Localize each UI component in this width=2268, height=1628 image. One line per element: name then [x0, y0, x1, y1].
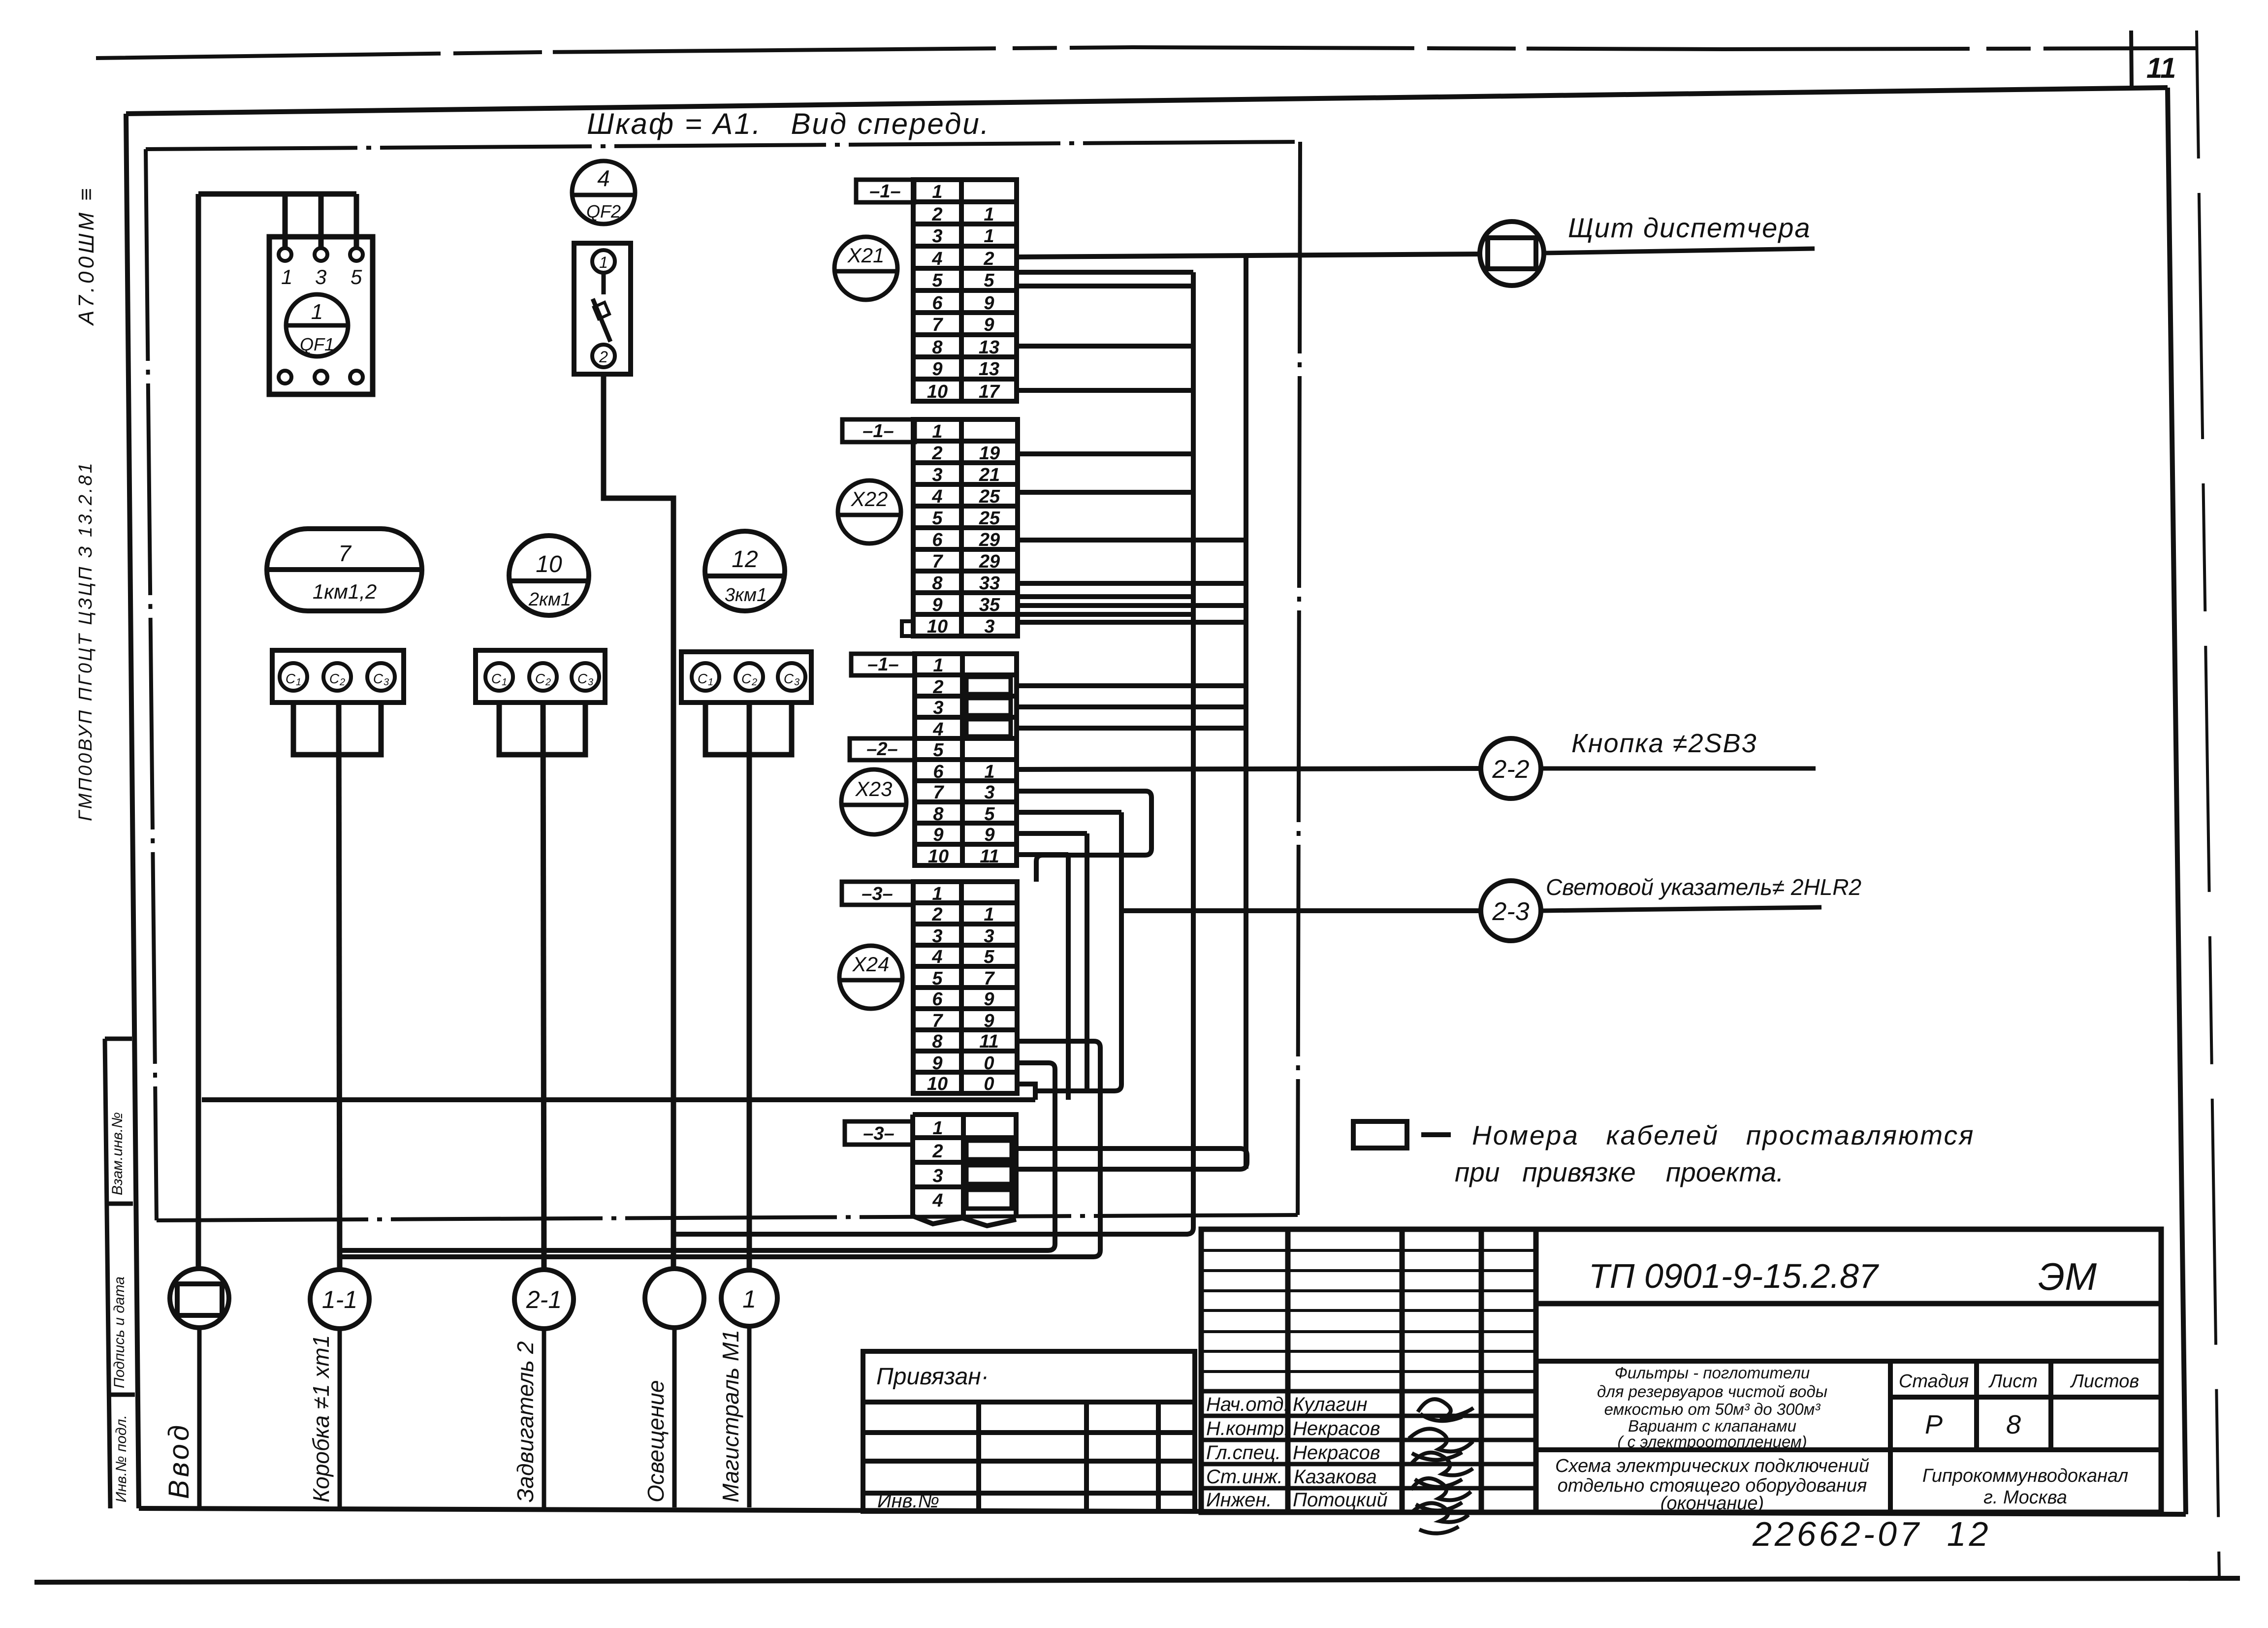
svg-text:емкостью от 50м³ до 300м³: емкостью от 50м³ до 300м³ — [1604, 1400, 1821, 1418]
wire: QF1 terminal drop 5 — [354, 194, 359, 248]
svg-text:17: 17 — [979, 382, 1000, 402]
QF2 switch blade — [593, 273, 610, 342]
svg-text:4: 4 — [932, 719, 943, 740]
svg-text:(окончание): (окончание) — [1661, 1493, 1764, 1514]
wire: X22.10 — [1018, 612, 1193, 617]
cable tab —3— of X24 — [842, 882, 913, 905]
svg-text:4: 4 — [932, 1190, 943, 1211]
svg-text:3: 3 — [315, 265, 326, 288]
svg-text:QF2: QF2 — [586, 201, 621, 222]
svg-text:Р: Р — [1925, 1410, 1943, 1439]
terminal C2 — [529, 663, 557, 691]
bottom strip cable number placeholder — [966, 1165, 1012, 1184]
svg-text:1: 1 — [932, 182, 942, 202]
svg-text:7: 7 — [984, 968, 995, 989]
terminal C2 — [323, 663, 351, 691]
svg-text:Освещение: Освещение — [643, 1380, 669, 1502]
svg-text:3: 3 — [932, 465, 942, 485]
button node 2-2 — [1481, 738, 1541, 798]
wire: X22.6 — [1018, 538, 1246, 543]
svg-text:4: 4 — [931, 947, 942, 967]
QF1 top terminal 1 — [279, 248, 291, 261]
X23 row 4 cable number placeholder — [966, 719, 1011, 736]
terminal box of contactor 1 — [272, 650, 404, 702]
frame bottom line — [139, 1508, 2186, 1514]
wire: lighting circuit from QF2 down — [604, 374, 673, 1269]
svg-text:Листов: Листов — [2070, 1371, 2139, 1392]
svg-text:4: 4 — [597, 165, 610, 191]
svg-text:Некрасов: Некрасов — [1293, 1442, 1380, 1464]
svg-text:5: 5 — [984, 804, 995, 825]
svg-text:12: 12 — [732, 546, 758, 573]
svg-text:Привязан·: Привязан· — [876, 1364, 989, 1390]
wire: X22.9 — [1018, 594, 1193, 599]
wire: X23.6 to button 2-2 — [1017, 768, 1481, 769]
svg-text:для резервуаров чистой воды: для резервуаров чистой воды — [1597, 1382, 1827, 1401]
QF1 top terminal 5 — [350, 248, 363, 261]
svg-text:4: 4 — [931, 486, 942, 507]
breaker QF1 body — [269, 237, 373, 394]
wire: X22.10b — [1018, 620, 1246, 625]
svg-text:8: 8 — [2006, 1410, 2021, 1439]
svg-text:33: 33 — [979, 573, 1000, 594]
jumper C1-C3 contactor 1 — [293, 702, 381, 755]
svg-text:9: 9 — [932, 359, 942, 380]
svg-text:7: 7 — [338, 541, 351, 566]
node 2-1 valve circle — [514, 1270, 574, 1329]
svg-text:при привязке проекта.: при привязке проекта. — [1455, 1157, 1784, 1187]
wire: X22.4 — [1018, 490, 1193, 495]
svg-text:X22: X22 — [851, 487, 888, 511]
svg-text:22662-07 12: 22662-07 12 — [1752, 1515, 1991, 1553]
wire: X21.4 to dispatcher panel — [1017, 254, 1480, 257]
sheet bottom edge — [34, 1578, 2240, 1582]
svg-text:2: 2 — [932, 1141, 943, 1162]
QF2 terminal 1 — [592, 250, 615, 273]
svg-text:29: 29 — [979, 530, 1000, 550]
svg-text:С: С — [535, 671, 545, 686]
lighting label underline — [672, 1328, 677, 1507]
svg-text:С: С — [329, 671, 340, 686]
bottom strip cable number placeholder — [966, 1141, 1012, 1159]
terminal strip X22 — [913, 419, 1018, 636]
M1 label underline — [747, 1326, 752, 1507]
svg-text:С: С — [741, 671, 752, 686]
svg-text:5: 5 — [351, 265, 362, 288]
1-1 label underline — [338, 1329, 342, 1507]
wire: loose strip row2 u-loop — [1017, 1149, 1247, 1169]
wire: X23.7 staircase — [1017, 791, 1151, 882]
svg-text:–3–: –3– — [863, 1123, 894, 1144]
loose terminal strip -3- (bottom) — [913, 1115, 1016, 1226]
svg-text:–1–: –1– — [862, 421, 894, 442]
svg-text:9: 9 — [932, 1053, 942, 1074]
svg-text:11: 11 — [2146, 52, 2176, 84]
svg-text:ГМП00ВУП ПГ0ЦТ ЦЗЦП З 13.2.81: ГМП00ВУП ПГ0ЦТ ЦЗЦП З 13.2.81 — [75, 461, 96, 821]
terminal C1 — [280, 663, 307, 691]
svg-text:5: 5 — [932, 508, 943, 529]
wire: QF1 terminal drop 3 — [319, 194, 324, 248]
svg-text:Световой указатель≠ 2HLR2: Световой указатель≠ 2HLR2 — [1546, 874, 1861, 900]
frame top line — [126, 88, 2168, 114]
svg-text:Нач.отд.: Нач.отд. — [1206, 1394, 1289, 1415]
X23 row 3 cable number placeholder — [966, 698, 1011, 715]
svg-text:ЭМ: ЭМ — [2038, 1255, 2097, 1298]
terminal C3 — [778, 663, 805, 691]
svg-text:Кнопка ≠2SB3: Кнопка ≠2SB3 — [1571, 729, 1757, 758]
connector balloon X21 — [834, 237, 897, 300]
wire: X21.6 — [1017, 284, 1193, 288]
svg-text:35: 35 — [979, 595, 1000, 615]
svg-text:Схема электрических подключени: Схема электрических подключений — [1555, 1456, 1869, 1476]
svg-text:10: 10 — [927, 616, 948, 637]
contactor balloon 10/2км1 — [509, 536, 589, 615]
svg-text:8: 8 — [932, 1031, 943, 1052]
svg-text:5: 5 — [984, 947, 994, 967]
wire: loose strip row3 — [1016, 1167, 1240, 1172]
svg-text:10: 10 — [928, 846, 949, 867]
svg-text:2: 2 — [931, 904, 942, 925]
wire: X24.10 hook — [1017, 1084, 1035, 1100]
svg-text:6: 6 — [933, 762, 944, 782]
contactor balloon 7/1км1,2 — [267, 529, 422, 611]
svg-text:Гл.спец.: Гл.спец. — [1206, 1442, 1281, 1464]
svg-text:С: С — [698, 671, 708, 686]
svg-text:2: 2 — [545, 677, 551, 688]
svg-text:9: 9 — [984, 315, 994, 335]
svg-text:Кулагин: Кулагин — [1293, 1394, 1367, 1415]
svg-text:1: 1 — [932, 1118, 943, 1139]
svg-text:0: 0 — [984, 1074, 994, 1094]
svg-text:Взам.инв.№: Взам.инв.№ — [109, 1112, 126, 1195]
wire: contactor1 C2 down to box 1-1 — [339, 702, 340, 1270]
svg-text:1км1,2: 1км1,2 — [313, 580, 377, 603]
svg-text:3: 3 — [932, 226, 942, 247]
terminal C2 — [735, 663, 763, 691]
svg-text:7: 7 — [932, 315, 943, 335]
svg-text:9: 9 — [984, 989, 994, 1010]
svg-text:1: 1 — [708, 677, 713, 688]
svg-text:3: 3 — [984, 782, 994, 803]
svg-text:Н.контр.: Н.контр. — [1206, 1418, 1289, 1439]
svg-text:0: 0 — [984, 1053, 994, 1074]
svg-text:Некрасов: Некрасов — [1293, 1418, 1380, 1439]
svg-text:2: 2 — [931, 443, 942, 464]
svg-text:Шкаф = А1. Вид спереди.: Шкаф = А1. Вид спереди. — [587, 107, 990, 140]
svg-text:Коробка ≠1 хт1: Коробка ≠1 хт1 — [308, 1335, 334, 1502]
svg-text:3: 3 — [794, 677, 799, 688]
wire: X23.9 — [1017, 831, 1087, 836]
left margin stamp column — [105, 1039, 135, 1508]
wire: contactor2 C2 down to valve 2-1 — [543, 702, 544, 1270]
2-2 label underline — [1541, 766, 1816, 771]
X23 row 2 cable number placeholder — [966, 677, 1011, 694]
svg-text:Подпись и дата: Подпись и дата — [111, 1277, 128, 1388]
svg-text:С: С — [784, 671, 794, 686]
svg-text:С: С — [577, 671, 588, 686]
svg-text:Щит диспетчера: Щит диспетчера — [1568, 212, 1811, 243]
cabinet boundary =A1 dash-dot rectangle — [146, 142, 1300, 1220]
svg-text:Потоцкий: Потоцкий — [1293, 1489, 1388, 1511]
svg-text:3: 3 — [984, 616, 994, 637]
frame right line — [2168, 88, 2186, 1514]
bus V1 down from X21.5 — [673, 272, 1193, 1234]
wire: X23.4 — [1017, 726, 1246, 731]
svg-text:8: 8 — [932, 573, 943, 594]
terminal C3 — [572, 663, 599, 691]
svg-text:С: С — [286, 671, 296, 686]
wire: X23.2 — [1017, 683, 1246, 688]
sheet right torn edge — [2197, 31, 2219, 1579]
sheet top torn edge — [96, 47, 2196, 58]
svg-text:–2–: –2– — [866, 739, 897, 760]
cable tab —1— of X22 — [842, 419, 915, 442]
svg-text:3: 3 — [984, 926, 994, 947]
signatures squiggles — [1409, 1399, 1473, 1533]
svg-text:3км1: 3км1 — [725, 585, 767, 606]
svg-text:7: 7 — [933, 782, 944, 803]
legend dash — [1421, 1132, 1451, 1137]
jumper C1-C3 contactor 2 — [499, 702, 585, 755]
QF1 bottom terminal — [315, 371, 327, 383]
2-1 label underline — [542, 1329, 546, 1507]
terminal strip X21 — [913, 180, 1017, 401]
svg-text:1: 1 — [933, 655, 943, 676]
page number divider tick — [2131, 31, 2132, 89]
svg-text:Инжен.: Инжен. — [1206, 1489, 1272, 1511]
svg-text:1: 1 — [932, 421, 942, 442]
switch QF2 body — [574, 243, 631, 374]
cable tab —3— of bottom strip — [845, 1121, 913, 1145]
svg-text:1-1: 1-1 — [322, 1286, 357, 1313]
svg-text:10: 10 — [536, 551, 562, 577]
svg-text:Гипрокоммунводоканал: Гипрокоммунводоканал — [1922, 1466, 2128, 1486]
wire: neutral run to input riser — [202, 1097, 1035, 1102]
wire: V down from X23.9 — [1085, 833, 1089, 1091]
svg-text:Фильтры - поглотители: Фильтры - поглотители — [1615, 1364, 1810, 1382]
svg-text:( с электроотоплением): ( с электроотоплением) — [1617, 1433, 1807, 1451]
svg-text:1: 1 — [311, 300, 323, 324]
svg-text:Ввод: Ввод — [163, 1422, 195, 1499]
svg-text:10: 10 — [927, 382, 948, 402]
svg-text:2-2: 2-2 — [1492, 755, 1529, 784]
svg-text:13: 13 — [979, 337, 999, 358]
svg-text:2-3: 2-3 — [1492, 897, 1529, 926]
wire: QF1 supply top horizontal — [198, 192, 356, 197]
svg-text:3: 3 — [933, 698, 943, 718]
cable tab —2— of X23 — [850, 738, 915, 760]
svg-text:X21: X21 — [847, 244, 885, 267]
svg-text:19: 19 — [979, 443, 1000, 464]
node: Ввод (input) circle with cable mark — [170, 1269, 229, 1328]
wire: light 2-3 line — [1121, 908, 1481, 913]
svg-text:25: 25 — [979, 508, 1000, 529]
svg-text:9: 9 — [984, 825, 994, 845]
bus V4 to light 2-3 and X24 — [1035, 812, 1121, 1091]
wire: X21.8 — [1017, 344, 1193, 349]
QF1 bottom terminal — [279, 371, 291, 383]
terminal strip X24 — [913, 882, 1017, 1093]
wire: QF1 terminal drop 1 — [283, 194, 288, 248]
remote device: dispatcher panel symbol — [1480, 222, 1544, 286]
Привязан box — [863, 1351, 1195, 1511]
svg-text:2: 2 — [983, 249, 994, 269]
svg-text:Лист: Лист — [1988, 1371, 2038, 1392]
QF1 designator balloon 1/QF1 — [286, 294, 348, 356]
svg-text:9: 9 — [984, 293, 994, 314]
QF1 top terminal 3 — [315, 248, 327, 261]
QF1 bottom terminal — [350, 371, 363, 383]
svg-text:1: 1 — [296, 677, 301, 688]
wire: X24.8 route to junction box — [340, 1041, 1100, 1257]
cable tab —1— of X21 — [856, 180, 914, 202]
jumper C1-C3 contactor 3 — [705, 702, 792, 755]
svg-text:8: 8 — [932, 337, 943, 358]
svg-text:Стадия: Стадия — [1899, 1371, 1969, 1392]
wire: X23.3 — [1017, 704, 1246, 709]
svg-text:–1–: –1– — [867, 654, 898, 675]
svg-text:3: 3 — [588, 677, 593, 688]
node lighting circle — [645, 1269, 704, 1328]
svg-text:1: 1 — [281, 265, 292, 288]
svg-text:5: 5 — [933, 740, 944, 761]
svg-text:2: 2 — [932, 677, 943, 698]
QF2 terminal 2 — [592, 345, 615, 367]
bottom strip cable number placeholder — [966, 1190, 1012, 1209]
svg-text:–1–: –1– — [869, 181, 900, 202]
svg-text:4: 4 — [931, 249, 942, 269]
svg-text:29: 29 — [979, 551, 1000, 572]
svg-text:2: 2 — [339, 677, 345, 688]
node 1 main M1 circle — [721, 1270, 777, 1326]
wire: X24.9 route to junction box — [340, 1063, 1055, 1250]
X22 row10 left mark — [902, 621, 914, 636]
dispatcher label underline — [1544, 249, 1815, 253]
svg-text:1: 1 — [984, 904, 994, 925]
svg-text:25: 25 — [979, 486, 1000, 507]
svg-text:Инв.№ подл.: Инв.№ подл. — [113, 1415, 129, 1502]
frame left line — [126, 114, 139, 1508]
contactor balloon 12/3км1 — [705, 531, 785, 611]
wire: X22.9b — [1018, 603, 1246, 608]
connector balloon X22 — [838, 480, 901, 543]
terminal C1 — [485, 663, 513, 691]
svg-text:21: 21 — [979, 465, 1000, 485]
svg-text:С: С — [373, 671, 383, 686]
QF2 designator balloon 4/QF2 — [572, 161, 635, 224]
wire: X21.10 — [1017, 388, 1193, 393]
svg-text:Инв.№: Инв.№ — [877, 1490, 939, 1512]
svg-text:г. Москва: г. Москва — [1983, 1487, 2067, 1508]
terminal C1 — [692, 663, 719, 691]
svg-text:2-1: 2-1 — [526, 1286, 562, 1313]
svg-text:7: 7 — [932, 1011, 943, 1031]
svg-text:X24: X24 — [852, 953, 890, 976]
svg-text:7: 7 — [932, 551, 943, 572]
svg-text:6: 6 — [932, 293, 943, 314]
cable tab —1— of X23 — [851, 654, 915, 675]
wire: X21.5 — [1017, 270, 1193, 275]
svg-text:9: 9 — [932, 595, 942, 615]
svg-text:С: С — [491, 671, 502, 686]
svg-text:1: 1 — [984, 226, 994, 247]
connector balloon X23 — [841, 769, 906, 834]
svg-text:1: 1 — [502, 677, 507, 688]
svg-text:–3–: –3– — [862, 884, 893, 904]
svg-text:11: 11 — [980, 846, 999, 867]
title block revision rows — [1201, 1250, 1536, 1372]
svg-text:Задвигатель 2: Задвигатель 2 — [512, 1341, 538, 1502]
svg-text:Номера кабелей проставляют: Номера кабелей проставляются — [1472, 1120, 1975, 1150]
svg-text:5: 5 — [932, 968, 943, 989]
terminal box of contactor 2 — [476, 650, 605, 702]
svg-text:5: 5 — [932, 270, 943, 291]
title block signature row dividers — [1201, 1391, 1536, 1488]
svg-text:ТП 0901-9-15.2.87: ТП 0901-9-15.2.87 — [1589, 1257, 1880, 1295]
2-3 label underline — [1541, 907, 1821, 911]
svg-text:8: 8 — [933, 804, 944, 825]
svg-text:А7.00ШМ ≡: А7.00ШМ ≡ — [74, 185, 98, 326]
wire: X22.2 — [1018, 451, 1193, 456]
svg-text:1: 1 — [742, 1285, 756, 1313]
svg-text:2: 2 — [599, 348, 608, 366]
svg-text:Ст.инж.: Ст.инж. — [1206, 1466, 1283, 1488]
svg-text:10: 10 — [927, 1074, 948, 1094]
svg-text:2: 2 — [751, 677, 757, 688]
svg-text:6: 6 — [932, 530, 943, 550]
svg-text:QF1: QF1 — [300, 334, 334, 354]
svg-text:9: 9 — [984, 1011, 994, 1031]
svg-text:1: 1 — [984, 204, 994, 225]
svg-text:3: 3 — [932, 1166, 943, 1186]
svg-text:3: 3 — [383, 677, 389, 688]
svg-text:1: 1 — [932, 884, 942, 904]
svg-text:Магистраль М1: Магистраль М1 — [718, 1330, 743, 1502]
title block outer — [1201, 1229, 2161, 1512]
wire: X23.8 to bus V4 — [1017, 810, 1121, 815]
terminal C3 — [367, 663, 395, 691]
svg-text:2км1: 2км1 — [528, 589, 571, 610]
svg-text:11: 11 — [979, 1031, 998, 1052]
svg-text:2: 2 — [931, 204, 942, 225]
svg-text:Казакова: Казакова — [1294, 1466, 1377, 1488]
legend cable number box — [1353, 1121, 1407, 1148]
wire: input feeder vertical (Ввод riser) — [196, 194, 201, 1269]
stadia header box — [1536, 1361, 2161, 1512]
terminal strip X23 — [915, 654, 1017, 865]
bus V2 down from X21.4 — [1244, 256, 1248, 1169]
svg-text:13: 13 — [979, 359, 999, 380]
svg-text:1: 1 — [599, 254, 608, 271]
title block main cell line — [1536, 1301, 2161, 1307]
svg-text:X23: X23 — [855, 777, 893, 800]
node 1-1 junction box circle — [310, 1270, 369, 1329]
wire: V down from X23.10 — [1066, 855, 1071, 1100]
connector balloon X24 — [839, 946, 902, 1009]
light node 2-3 — [1481, 881, 1541, 941]
wire: X22.8 — [1018, 581, 1246, 586]
Ввод label underline — [197, 1328, 202, 1507]
svg-text:6: 6 — [932, 989, 943, 1010]
svg-text:9: 9 — [933, 825, 943, 845]
terminal box of contactor 3 — [681, 652, 811, 702]
wire: X23.10 — [1017, 852, 1068, 857]
svg-text:5: 5 — [984, 270, 994, 291]
svg-text:1: 1 — [984, 762, 994, 782]
svg-text:3: 3 — [932, 926, 942, 947]
wire: contactor3 C2 down to main M1 — [747, 702, 752, 1270]
